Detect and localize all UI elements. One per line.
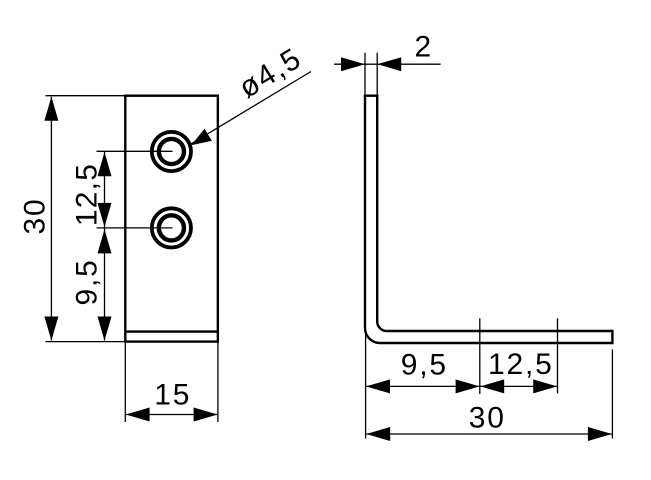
svg-text:12,5: 12,5 bbox=[71, 163, 104, 226]
extension tick at 12,5 (side view) bbox=[557, 318, 559, 393]
centerline hole H2 bbox=[97, 227, 173, 229]
side view inner bend arc bbox=[377, 322, 387, 332]
svg-text:30: 30 bbox=[19, 198, 52, 235]
extension line outer face left (side view) bbox=[365, 334, 367, 439]
dimension 15 label bbox=[154, 379, 191, 412]
dimension 15 line bbox=[126, 408, 218, 422]
extension line top left bbox=[46, 95, 126, 97]
plate outline (front view) bbox=[125, 96, 218, 342]
side view vertical leg inner line bbox=[376, 96, 378, 322]
extension line thickness right bbox=[376, 53, 378, 96]
bend line (front view) bbox=[125, 330, 218, 332]
centerline hole H1 bbox=[97, 150, 173, 152]
side view horizontal leg top line bbox=[387, 330, 613, 332]
svg-text:9,5: 9,5 bbox=[401, 349, 448, 382]
dimension 30 (front view) line bbox=[44, 97, 58, 341]
leader line for hole diameter bbox=[191, 72, 311, 146]
leader label diameter 4,5 bbox=[233, 42, 308, 105]
dimension 12,5 (side view) line bbox=[480, 379, 557, 393]
dimension 9,5 (side view) line bbox=[366, 379, 480, 393]
svg-text:15: 15 bbox=[154, 379, 191, 412]
extension tick at 9,5 (side view) bbox=[479, 318, 481, 394]
side view vertical leg outer line bbox=[364, 96, 366, 328]
hole H2 inner circle bbox=[159, 215, 184, 240]
dimension 30 (side view) line bbox=[366, 427, 612, 441]
svg-text:2: 2 bbox=[415, 31, 434, 64]
side view top end cap bbox=[364, 94, 379, 96]
dimension 30 (front view) label bbox=[19, 198, 52, 235]
extension line left plate edge down bbox=[124, 342, 126, 422]
dimension 12,5 (side view) label bbox=[488, 348, 554, 381]
extension line right plate edge down bbox=[217, 342, 219, 422]
dimension 9,5 (front view) line bbox=[98, 228, 112, 341]
dimension 2 label bbox=[415, 31, 434, 64]
extension line right end (side view) bbox=[611, 349, 613, 438]
side view outer bend arc bbox=[365, 328, 380, 343]
svg-text:9,5: 9,5 bbox=[71, 258, 104, 305]
dimension 9,5 (front view) label bbox=[71, 258, 104, 305]
hole H1 outer circle bbox=[152, 132, 191, 171]
side view right end cap bbox=[611, 330, 613, 344]
dimension 12,5 (front view) label bbox=[71, 163, 104, 226]
dimension 2 line with outside arrows bbox=[334, 57, 441, 71]
svg-text:30: 30 bbox=[469, 402, 506, 435]
svg-text:12,5: 12,5 bbox=[488, 348, 554, 381]
hole H1 inner circle bbox=[159, 139, 184, 164]
dimension 9,5 (side view) label bbox=[401, 349, 448, 382]
hole H2 outer circle bbox=[152, 208, 191, 247]
extension line bottom left bbox=[46, 341, 126, 343]
dimension 12,5 (front view) line bbox=[98, 151, 112, 228]
side view horizontal leg bottom line bbox=[380, 342, 612, 344]
extension line thickness left bbox=[364, 53, 366, 96]
dimension 30 (side view) label bbox=[469, 402, 506, 435]
